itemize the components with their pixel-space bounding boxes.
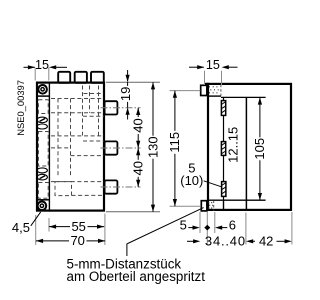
dimension 130 bbox=[146, 82, 161, 212]
dimension 15 side view bbox=[189, 58, 238, 72]
peg 3 centerline bbox=[101, 186, 141, 188]
extension line bottom edge right bbox=[106, 211, 160, 213]
top molded spacer block dotted bbox=[207, 85, 221, 97]
svg-text:34..40: 34..40 bbox=[205, 234, 246, 249]
extension lines front view top bbox=[35, 68, 49, 81]
svg-text:70: 70 bbox=[70, 233, 84, 248]
svg-text:am Oberteil angespritzt: am Oberteil angespritzt bbox=[67, 269, 206, 284]
svg-text:105: 105 bbox=[252, 138, 267, 160]
svg-text:6: 6 bbox=[229, 218, 236, 233]
dimension 19 bbox=[118, 70, 133, 120]
label 4,5 with leader bbox=[12, 212, 41, 235]
dimension 70 bbox=[36, 233, 105, 248]
note text bbox=[67, 256, 206, 284]
inner channel wall bbox=[245, 97, 247, 210]
bottom molded spacer block dotted bbox=[208, 201, 213, 211]
dimension 40 lower bbox=[131, 148, 146, 187]
extension line top edge right bbox=[106, 81, 160, 83]
top mounting hole bbox=[38, 85, 47, 94]
extension lines side view top bbox=[205, 71, 222, 85]
bottom mounting hole bbox=[38, 202, 47, 211]
dimension 55 bbox=[49, 219, 104, 234]
peg 2 centerline bbox=[101, 147, 141, 149]
dimension 15 front view bbox=[24, 58, 68, 72]
side peg 2 bbox=[105, 141, 118, 154]
hatched lug 3 bbox=[222, 182, 226, 197]
svg-text:55: 55 bbox=[71, 219, 85, 234]
side peg 1 bbox=[105, 101, 118, 114]
note leader line bbox=[127, 208, 204, 256]
terminal lug 3 bbox=[91, 72, 104, 83]
svg-text:40: 40 bbox=[131, 118, 146, 132]
dimension 105 bbox=[252, 97, 267, 200]
dimension 115 bbox=[167, 91, 182, 207]
dimension 40 upper bbox=[131, 108, 146, 148]
part number label NSE0_00397 bbox=[15, 80, 26, 136]
extension lines below side view bbox=[200, 212, 292, 245]
svg-text:15: 15 bbox=[206, 58, 220, 72]
side view bottom spacer tab bbox=[201, 201, 207, 211]
svg-text:(10): (10) bbox=[180, 173, 203, 188]
inner channel top line bbox=[221, 96, 266, 98]
inner channel bottom line bbox=[207, 199, 265, 201]
svg-text:19: 19 bbox=[118, 87, 133, 101]
svg-text:130: 130 bbox=[146, 136, 161, 158]
top mounting hole box line bbox=[36, 95, 49, 97]
terminal lug 1 bbox=[58, 72, 70, 83]
svg-text:15: 15 bbox=[35, 58, 49, 72]
dimension 34..40 and 42 bbox=[187, 234, 292, 249]
hidden edges front view bbox=[38, 86, 104, 199]
svg-text:12..15: 12..15 bbox=[225, 127, 240, 163]
lower slotted oval bbox=[37, 174, 47, 180]
lower plain oval bbox=[37, 168, 47, 173]
side view outer outline bbox=[205, 84, 291, 210]
extension lines 115 bbox=[170, 91, 201, 207]
upper plain oval bbox=[37, 124, 47, 129]
hatched lug 1 bbox=[221, 101, 225, 116]
side peg 3 bbox=[105, 180, 118, 193]
svg-text:4,5: 4,5 bbox=[12, 220, 30, 235]
terminal lug 2 bbox=[75, 72, 87, 83]
svg-text:115: 115 bbox=[167, 132, 182, 153]
svg-text:NSE0_00397: NSE0_00397 bbox=[15, 80, 26, 136]
front view body outline bbox=[37, 83, 104, 211]
svg-text:42: 42 bbox=[259, 234, 273, 249]
hatched lug 2 bbox=[221, 142, 225, 156]
svg-text:40: 40 bbox=[131, 161, 146, 175]
dimension 5 and 6 bbox=[180, 218, 236, 233]
side view top spacer tab bbox=[201, 85, 207, 95]
svg-text:5: 5 bbox=[180, 218, 187, 233]
upper slotted oval bbox=[37, 117, 47, 123]
front view mounting strip divider line bbox=[48, 82, 50, 212]
label 12..15 bbox=[225, 127, 240, 163]
peg 1 centerline bbox=[101, 107, 141, 109]
label 5 (10) with leader bbox=[180, 160, 221, 188]
bottom mounting hole box line bbox=[36, 199, 49, 201]
extension lines below front view bbox=[36, 214, 105, 246]
rail support line bbox=[223, 97, 225, 210]
